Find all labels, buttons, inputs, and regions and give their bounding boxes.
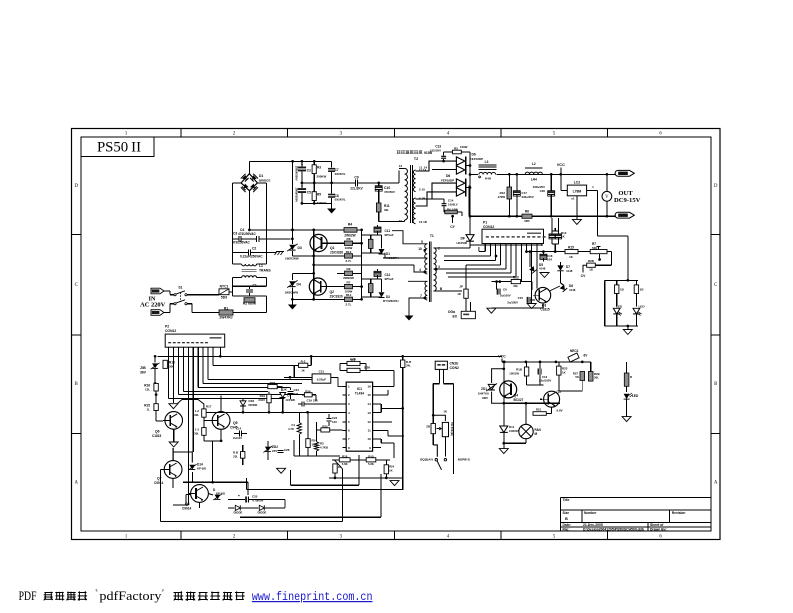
svg-text:1K: 1K (301, 369, 305, 373)
svg-text:L2: L2 (532, 162, 536, 166)
svg-text:231V: 231V (258, 398, 265, 402)
svg-text:100/1W: 100/1W (509, 371, 519, 375)
svg-text:9: 9 (369, 446, 371, 450)
svg-text:NOPW B: NOPW B (458, 458, 470, 462)
svg-text:C3: C3 (233, 232, 237, 236)
svg-text:1CPBD: 1CPBD (285, 398, 295, 402)
svg-text:C2: C2 (307, 169, 311, 173)
svg-text:R7: R7 (347, 281, 351, 285)
svg-text:D4: D4 (297, 283, 301, 287)
svg-text:M: M (535, 432, 538, 436)
svg-text:CV: CV (581, 274, 586, 278)
svg-text:16: 16 (367, 385, 371, 389)
svg-text:P2: P2 (165, 325, 169, 329)
svg-text:1W2CWW: 1W2CWW (285, 291, 299, 295)
svg-text:36V: 36V (140, 371, 147, 375)
svg-text:VR 50K(B): VR 50K(B) (450, 422, 454, 436)
svg-text:0R5: 0R5 (524, 219, 530, 223)
svg-text:30L: 30L (594, 376, 599, 380)
svg-text:Q5: Q5 (233, 421, 238, 425)
svg-text:Q6: Q6 (155, 430, 160, 434)
svg-text:D1: D1 (259, 174, 263, 178)
svg-text:15 1B: 15 1B (419, 220, 427, 224)
svg-text:PS50 II: PS50 II (97, 139, 141, 155)
svg-text:D:\Design20041205\PS50\SCH50II: D:\Design20041205\PS50\SCH50II.ddb (583, 527, 644, 531)
svg-text:L78M: L78M (573, 190, 582, 194)
svg-text:XBV: XBV (482, 396, 488, 400)
svg-text:Q2: Q2 (330, 290, 335, 294)
svg-text:2W47RJ: 2W47RJ (219, 316, 232, 320)
svg-text:5K: 5K (575, 375, 579, 379)
svg-text:R-2: R-2 (301, 360, 306, 364)
svg-text:R4: R4 (348, 223, 352, 227)
svg-text:3: 3 (348, 402, 350, 406)
svg-text:23L: 23L (233, 454, 238, 458)
svg-text:4.7KB: 4.7KB (320, 446, 328, 450)
svg-text:C19: C19 (307, 399, 313, 403)
svg-text:5D9: 5D9 (221, 295, 227, 299)
svg-text:〝: 〝 (91, 589, 98, 597)
svg-text:4148: 4148 (569, 288, 576, 292)
svg-text:AC 220V: AC 220V (140, 302, 165, 309)
svg-text:2u/100V: 2u/100V (500, 293, 511, 297)
svg-text:JP: JP (459, 285, 463, 289)
svg-text:LED: LED (632, 394, 639, 398)
svg-text:NTC1: NTC1 (220, 285, 229, 289)
svg-text:5 10: 5 10 (419, 188, 425, 192)
svg-text:4: 4 (348, 411, 350, 415)
svg-text:0X2KVL: 0X2KVL (335, 198, 346, 202)
svg-text:C15: C15 (518, 296, 524, 300)
svg-text:Q1: Q1 (330, 246, 335, 250)
svg-text:5.6K: 5.6K (342, 462, 348, 466)
svg-text:TL494: TL494 (355, 392, 364, 396)
svg-text:C20: C20 (540, 189, 546, 193)
svg-text:NEC2: NEC2 (570, 349, 579, 353)
svg-text:2u/100: 2u/100 (233, 436, 242, 440)
svg-text:L3: L3 (485, 160, 489, 164)
svg-text:34L: 34L (406, 364, 411, 368)
svg-text:T1: T1 (430, 234, 434, 238)
svg-text:B: B (565, 517, 568, 521)
svg-text:LC2: LC2 (574, 181, 580, 185)
svg-text:200KW: 200KW (317, 175, 327, 179)
svg-text:4.7u/50V: 4.7u/50V (252, 498, 264, 502)
svg-text:1K: 1K (389, 468, 393, 472)
svg-text:DC9-15V: DC9-15V (614, 197, 641, 204)
svg-text:R13: R13 (346, 250, 352, 254)
svg-text:DF: DF (461, 237, 466, 241)
svg-text:DIODE: DIODE (233, 511, 242, 515)
svg-text:100W: 100W (460, 145, 468, 149)
svg-text:10: 10 (418, 247, 422, 251)
svg-text:R5: R5 (454, 147, 458, 151)
svg-text:473/250VAC: 473/250VAC (232, 241, 251, 245)
svg-text:14: 14 (367, 402, 371, 406)
svg-text:DIODE: DIODE (257, 511, 266, 515)
svg-text:+: + (238, 494, 240, 498)
svg-text:ZD1: ZD1 (481, 387, 487, 391)
svg-text:Q7: Q7 (157, 477, 162, 481)
svg-text:R17: R17 (206, 405, 212, 409)
svg-text:1N47XA: 1N47XA (478, 391, 490, 395)
svg-text:R21: R21 (536, 408, 542, 412)
svg-text:R6: R6 (525, 210, 529, 214)
svg-text:30L: 30L (169, 365, 174, 369)
svg-text:100uF/200V: 100uF/200V (295, 187, 299, 202)
svg-text:R2B: R2B (588, 259, 594, 263)
svg-text:Number: Number (584, 511, 597, 515)
svg-text:2.7L: 2.7L (346, 302, 352, 306)
svg-text:21-Dec-2005: 21-Dec-2005 (583, 523, 603, 527)
svg-text:5: 5 (421, 240, 423, 244)
svg-text:CON12: CON12 (483, 225, 494, 229)
svg-text:HCPHD: HCPHD (457, 241, 467, 245)
svg-text:BRIDGE: BRIDGE (259, 179, 270, 183)
svg-text:A: A (714, 481, 718, 486)
svg-text:2: 2 (438, 247, 440, 251)
svg-text:2: 2 (348, 393, 350, 397)
svg-text:C2: C2 (252, 247, 256, 251)
svg-text:22u/100V: 22u/100V (539, 379, 551, 383)
svg-text:CON12: CON12 (165, 329, 176, 333)
svg-text:n1: n1 (571, 197, 575, 201)
svg-text:pdfFactory: pdfFactory (99, 589, 162, 603)
svg-text:4.7K: 4.7K (288, 427, 294, 431)
svg-text:Sheet of: Sheet of (650, 523, 664, 527)
svg-text:1K: 1K (562, 370, 566, 374)
svg-text:BC327: BC327 (514, 398, 524, 402)
svg-text:L1: L1 (259, 264, 263, 268)
svg-text:C9: C9 (354, 176, 358, 180)
svg-text:ZIB: ZIB (140, 366, 146, 370)
svg-text:102/1KV: 102/1KV (430, 148, 441, 152)
svg-text:1W2CWW: 1W2CWW (285, 257, 299, 261)
svg-text:222: 222 (294, 392, 299, 396)
svg-text:9PVuF: 9PVuF (385, 233, 394, 237)
svg-text:13: 13 (367, 411, 371, 415)
svg-text:1000LV: 1000LV (448, 202, 458, 206)
svg-text:A: A (74, 481, 78, 486)
svg-text:R2 680K: R2 680K (243, 302, 257, 306)
svg-text:9PVuF: 9PVuF (385, 277, 394, 281)
svg-text:30L: 30L (384, 208, 389, 212)
svg-text:www.fineprint.com.cn: www.fineprint.com.cn (252, 590, 373, 604)
svg-text:1B: 1B (640, 288, 644, 292)
svg-text:Revision: Revision (672, 511, 686, 515)
svg-text:OGa: OGa (448, 310, 455, 314)
svg-text:0X2KVL: 0X2KVL (335, 172, 346, 176)
svg-text:P1: P1 (483, 221, 487, 225)
svg-text:12: 12 (367, 420, 371, 424)
svg-text:C21: C21 (319, 370, 325, 374)
svg-text:220: 220 (313, 399, 318, 403)
svg-text:CON2: CON2 (450, 366, 459, 370)
svg-text:BYV26CPH: BYV26CPH (383, 299, 399, 303)
svg-text:C1815: C1815 (152, 434, 162, 438)
svg-text:R9: R9 (347, 267, 351, 271)
svg-text:IC1: IC1 (357, 387, 362, 391)
svg-text:4: 4 (419, 268, 421, 272)
svg-text:100uF/200V: 100uF/200V (295, 166, 299, 181)
svg-text:R18: R18 (342, 454, 348, 458)
svg-text:C9014: C9014 (154, 481, 164, 485)
svg-text:1N4007: 1N4007 (509, 429, 519, 433)
svg-text:VCC: VCC (498, 355, 506, 359)
svg-text:BQ(3)A/V: BQ(3)A/V (420, 458, 433, 462)
svg-text:13: 13 (399, 164, 403, 168)
svg-text:KP-BO: KP-BO (197, 467, 207, 471)
svg-text:330u/25V: 330u/25V (522, 195, 534, 199)
svg-text:Size: Size (563, 511, 570, 515)
svg-text:470/50V: 470/50V (384, 190, 395, 194)
svg-text:DIODE: DIODE (249, 403, 258, 407)
svg-text:EX: EX (452, 315, 457, 319)
svg-text:1: 1 (348, 385, 350, 389)
svg-text:S1: S1 (178, 286, 182, 290)
svg-text:FEP16DP: FEP16DP (470, 157, 483, 161)
svg-text:11: 11 (368, 429, 372, 433)
svg-text:1B: 1B (589, 268, 593, 272)
svg-text:7: 7 (420, 294, 422, 298)
svg-text:473/250VAC: 473/250VAC (238, 232, 257, 236)
svg-text:R23: R23 (270, 381, 276, 385)
svg-text:103: 103 (332, 420, 337, 424)
svg-text:FEP16DP: FEP16DP (441, 178, 454, 182)
svg-text:R14: R14 (346, 293, 352, 297)
svg-text:D: D (74, 184, 78, 189)
svg-text:100W: 100W (345, 246, 353, 250)
svg-text:R13: R13 (513, 276, 519, 280)
svg-text:7: 7 (348, 437, 350, 441)
svg-text:2u/100V: 2u/100V (507, 301, 518, 305)
svg-text:B: B (75, 382, 78, 387)
svg-text:File:: File: (563, 527, 570, 531)
svg-text:R26: R26 (305, 389, 311, 393)
svg-text:D: D (714, 184, 718, 189)
svg-text:4148: 4148 (566, 269, 573, 273)
svg-text:R25: R25 (322, 425, 328, 429)
svg-text:5.6K: 5.6K (368, 462, 374, 466)
svg-text:R15: R15 (568, 246, 574, 250)
svg-text:D3: D3 (298, 246, 302, 250)
svg-text:16: 16 (399, 219, 403, 223)
svg-text:3: 3 (438, 265, 440, 269)
svg-text:15: 15 (367, 393, 371, 397)
svg-text:10W: 10W (452, 207, 458, 211)
svg-text:4148: 4148 (539, 267, 546, 271)
svg-text:KP-BO: KP-BO (216, 492, 226, 496)
svg-text:5: 5 (348, 420, 350, 424)
svg-text:R1: R1 (224, 307, 228, 311)
svg-text:24V: 24V (272, 449, 277, 453)
svg-text:ZB: ZB (426, 425, 430, 429)
svg-text:C14: C14 (236, 427, 242, 431)
svg-text:L4H: L4H (531, 178, 538, 182)
svg-text:C6: C6 (503, 288, 507, 292)
svg-text:6: 6 (348, 429, 350, 433)
svg-text:0.22uF: 0.22uF (317, 377, 327, 381)
svg-text:30L: 30L (194, 431, 199, 435)
svg-text:PDF: PDF (19, 589, 37, 603)
svg-text:2SC3320: 2SC3320 (330, 295, 343, 299)
svg-text:TRANS: TRANS (259, 269, 271, 273)
svg-text:2SC3320: 2SC3320 (330, 251, 343, 255)
svg-text:1B: 1B (620, 288, 624, 292)
svg-text:470W: 470W (498, 195, 506, 199)
svg-text:〞: 〞 (162, 589, 169, 597)
svg-text:C9014: C9014 (182, 507, 192, 511)
svg-text:C: C (714, 283, 717, 288)
svg-text:T2: T2 (414, 157, 418, 161)
svg-text:C1: C1 (253, 284, 257, 288)
svg-text:V: V (605, 195, 609, 200)
svg-text:R4: R4 (447, 207, 451, 211)
svg-text:D6: D6 (472, 153, 476, 157)
svg-text:2.2K: 2.2K (350, 357, 356, 361)
svg-text:13L: 13L (145, 388, 150, 392)
svg-text:Title: Title (563, 498, 570, 502)
svg-text:22L/2KV: 22L/2KV (350, 186, 363, 190)
svg-text:Drawn By:: Drawn By: (650, 527, 667, 531)
svg-text:VCC: VCC (557, 163, 565, 167)
svg-text:30L: 30L (513, 284, 518, 288)
svg-text:2.2K: 2.2K (364, 365, 371, 369)
svg-text:Date:: Date: (563, 523, 571, 527)
svg-text:1L: 1L (147, 408, 151, 412)
svg-text:R5: R5 (317, 192, 321, 196)
svg-text:104: 104 (547, 258, 552, 262)
svg-text:C26: C26 (284, 448, 290, 452)
svg-text:Q4: Q4 (514, 394, 519, 398)
svg-text:R8: R8 (347, 237, 351, 241)
svg-text:CY: CY (450, 225, 455, 229)
svg-text:11_14: 11_14 (419, 165, 427, 169)
svg-text:B: B (714, 382, 717, 387)
svg-text:2.7L: 2.7L (346, 259, 352, 263)
svg-text:CN2b: CN2b (450, 362, 459, 366)
svg-text:R-B: R-B (368, 454, 373, 458)
svg-text:K4H: K4H (485, 177, 491, 181)
svg-text:C5: C5 (307, 190, 311, 194)
svg-text:8: 8 (348, 446, 350, 450)
svg-text:0.22uF/250VAC: 0.22uF/250VAC (240, 255, 263, 259)
svg-text:C: C (75, 283, 78, 288)
svg-text:R3: R3 (317, 166, 321, 170)
svg-text:10: 10 (367, 437, 371, 441)
svg-text:30L: 30L (194, 413, 199, 417)
svg-text:6.8V: 6.8V (557, 408, 563, 412)
